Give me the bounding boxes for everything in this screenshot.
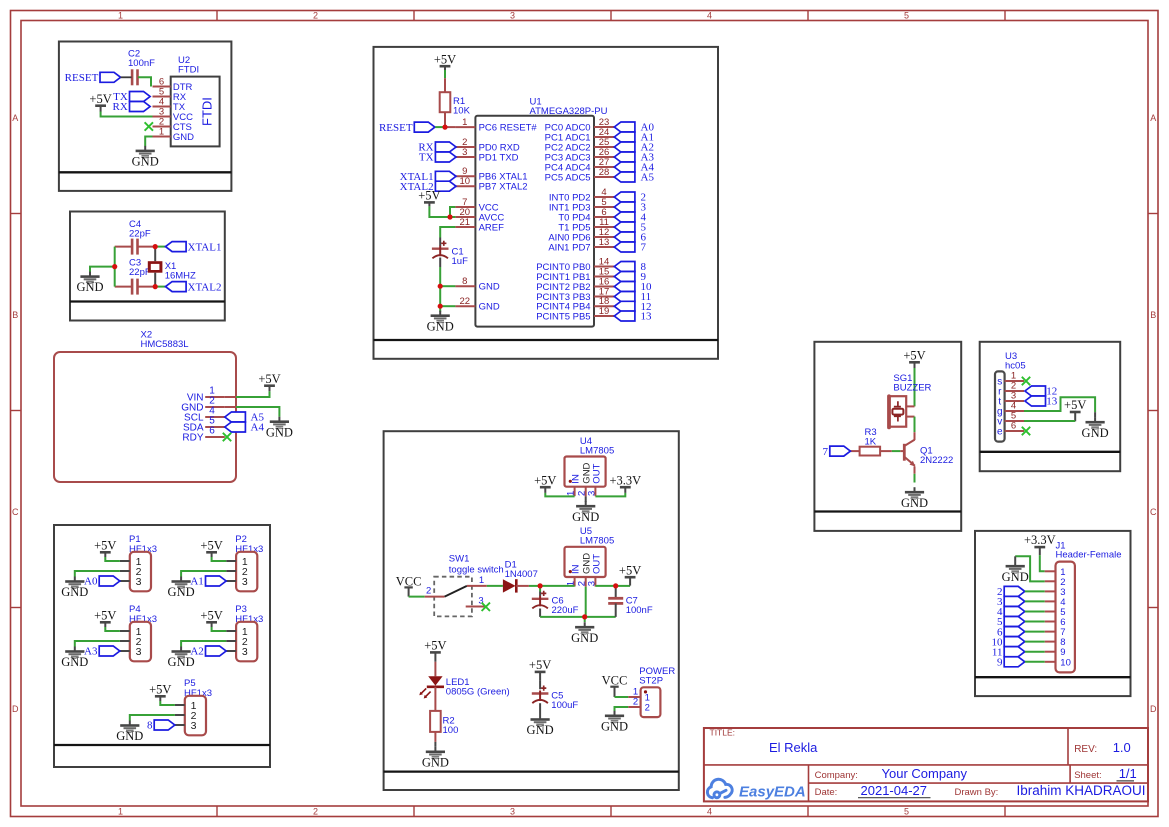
junction crystal left (112, 264, 117, 269)
pin 1 stub (U4) (574, 487, 576, 497)
svg-text:+5V: +5V (94, 538, 116, 552)
svg-text:A2: A2 (190, 646, 203, 658)
frame top tick 1 (216, 11, 218, 21)
wire C3 to XTAL2 junction (138, 286, 156, 288)
svg-text:PCINT5 PB5: PCINT5 PB5 (536, 311, 590, 322)
J1 group box (975, 531, 1131, 696)
wire flag 2 to J1 pin 3 (1025, 590, 1045, 592)
wire junction to +5V (616, 585, 630, 587)
pin 3 of P5 (175, 724, 185, 726)
svg-text:BUZZER: BUZZER (893, 383, 931, 394)
svg-text:e: e (997, 426, 1003, 437)
pin 5 SDA of X2 (205, 426, 225, 428)
net flag 9 on pin 15 (614, 272, 635, 282)
wire C6 to bottom rail (539, 609, 541, 617)
net flag 2 (J1 pin 3) (1004, 586, 1025, 596)
pin 1 of P5 (175, 704, 185, 706)
wire ground to pin2 (P2) (181, 571, 226, 577)
svg-text:ST2P: ST2P (639, 675, 663, 686)
wire C2 to pin 6 (138, 77, 151, 86)
pin 2 CTS of U2 (153, 126, 171, 128)
svg-text:+5V: +5V (534, 473, 556, 487)
wire +5V to U4 pin1 (545, 493, 574, 497)
svg-text:+5V: +5V (418, 189, 440, 203)
pin 2 of P3 (226, 640, 236, 642)
pin 3 VCC of U2 (153, 116, 171, 118)
crystal X1 top stem (154, 247, 156, 262)
chip U2 body (171, 77, 220, 147)
pin 5 v of U3 (1005, 420, 1024, 422)
pin 22 GND of U1 (455, 305, 475, 307)
wire VCC to SW1 pin2 (409, 596, 425, 598)
svg-text:+5V: +5V (424, 639, 446, 653)
EasyEDA logo cloud (707, 779, 732, 797)
net flag A4 (X2) (225, 422, 246, 432)
wire +3.3V to U4 pin3 (595, 493, 625, 497)
svg-text:toggle switch: toggle switch (449, 565, 504, 576)
pin 5 INT1 PD3 of U1 (594, 206, 614, 208)
title block company/date divider (809, 782, 1149, 784)
net flag 4 (J1 pin 5) (1004, 607, 1025, 617)
net flag A4 on pin 27 (614, 162, 635, 172)
ground symbol (P3) (172, 647, 191, 660)
net flag XTAL1 (U1) (435, 171, 456, 181)
title block logo cell divider (808, 765, 810, 802)
wire flag 6 to J1 pin 7 (1025, 631, 1045, 633)
svg-text:1: 1 (479, 575, 484, 586)
svg-text:1.0: 1.0 (1113, 740, 1131, 755)
frame bottom tick 5 (1004, 806, 1006, 817)
net flag A5 on pin 28 (614, 172, 635, 182)
svg-text:GND: GND (132, 155, 159, 169)
svg-text:2N2222: 2N2222 (920, 455, 953, 466)
pin 14 PCINT0 PB0 of U1 (594, 266, 614, 268)
title block row divider (704, 764, 1148, 766)
wire GND pin to box edge (225, 406, 236, 408)
svg-text:A: A (1150, 113, 1156, 123)
net flag 2 on pin 4 (614, 192, 635, 202)
svg-text:D: D (12, 704, 19, 714)
no-connect X on U3 pin 6 (1022, 427, 1030, 435)
svg-text:10: 10 (1060, 657, 1071, 668)
svg-text:Header-Female: Header-Female (1056, 550, 1122, 561)
pin 23 PC0 ADC0 of U1 (594, 126, 614, 128)
svg-text:1uF: 1uF (452, 256, 469, 267)
svg-text:D: D (1150, 704, 1157, 714)
junction GND pin 22 (438, 304, 443, 309)
net flag A0 (P1) (99, 576, 120, 586)
svg-text:PD1 TXD: PD1 TXD (479, 152, 519, 163)
regulator U5 body (565, 547, 606, 577)
wire J1 pin2 to ground (1015, 556, 1044, 581)
svg-text:3: 3 (242, 646, 248, 658)
pin-1 dot (U5) (569, 570, 572, 573)
svg-text:RDY: RDY (182, 432, 203, 443)
wire POWER pin2 to ground (615, 707, 629, 712)
svg-text:A3: A3 (84, 646, 98, 658)
wire junction to U5 pin1 (540, 585, 575, 587)
wire +5V to pin1 (P2) (212, 557, 227, 561)
svg-text:8: 8 (462, 276, 467, 287)
wire crystal left vertical (114, 247, 116, 287)
pin 1 s of U3 (1005, 380, 1024, 382)
junction AVCC (447, 214, 452, 219)
net flag A2 (P3) (206, 646, 227, 656)
capacitor C3 (132, 279, 137, 295)
net flag 13 (U3) (1025, 396, 1046, 406)
ATMEGA group box (374, 47, 719, 359)
capacitor C7 bottom stub (615, 603, 617, 617)
svg-text:0805G (Green): 0805G (Green) (446, 687, 510, 698)
svg-text:100nF: 100nF (626, 605, 653, 616)
frame left tick 2 (11, 410, 22, 412)
net flag 9 (J1 pin 10) (1004, 657, 1025, 667)
wire U5 pin3 to +5V junction (595, 585, 615, 587)
ground symbol (C5) (531, 715, 550, 728)
FTDI group box (59, 42, 232, 191)
ground symbol (J1) (1006, 561, 1025, 574)
pin 9 of J1 (1045, 651, 1056, 653)
wire XTAL1 row left segment (115, 246, 132, 248)
net flag 8 (P5) (154, 720, 175, 730)
pin 10 PB7 XTAL2 of U1 (455, 185, 475, 187)
net flag A2 on pin 25 (614, 142, 635, 152)
svg-text:2021-04-27: 2021-04-27 (861, 783, 928, 798)
pin 7 of J1 (1045, 631, 1056, 633)
svg-text:RESET: RESET (65, 72, 99, 84)
net flag 5 (J1 pin 6) (1004, 617, 1025, 627)
svg-text:2: 2 (313, 807, 318, 817)
connector J1 body (1056, 562, 1075, 673)
Q1 base stub (900, 450, 904, 452)
wire C4 to XTAL1 junction (138, 246, 156, 248)
svg-text:GND: GND (427, 319, 454, 333)
wire VCC to POWER pin1 (615, 696, 629, 698)
ground symbol (U5/C6/C7) (575, 622, 594, 635)
wire flag 11 to J1 pin 9 (1025, 651, 1045, 653)
junction RESET/R1 (442, 125, 447, 130)
wire C5 to ground (539, 703, 541, 714)
wire junction to AVCC pin (450, 216, 455, 218)
svg-text:22pF: 22pF (129, 267, 151, 278)
wire VIN pin to box edge (225, 396, 236, 398)
wire C1 to GND pins green segment (439, 267, 441, 286)
net flag A3 on pin 26 (614, 152, 635, 162)
wire ground stem (U3) (1094, 412, 1096, 417)
svg-text:21: 21 (460, 217, 471, 228)
svg-text:FTDI: FTDI (200, 97, 215, 126)
svg-text:4: 4 (707, 807, 712, 817)
wire junction down to C6 (539, 586, 541, 592)
pin 2 of P2 (226, 570, 236, 572)
svg-text:GND: GND (173, 132, 194, 143)
pin 1 stub (U5) (574, 577, 576, 587)
pin 6 DTR of U2 (153, 86, 171, 88)
capacitor C1 (432, 241, 449, 259)
FTDI group separator (59, 171, 232, 173)
net flag 7 on pin 13 (614, 242, 635, 252)
net flag XTAL2 (U1) (435, 181, 456, 191)
pin 3 of SW1 (466, 606, 486, 608)
pin 2 of SW1 (425, 596, 445, 598)
crystal X1 body (148, 261, 163, 273)
svg-text:LM7805: LM7805 (580, 445, 614, 456)
svg-text:10K: 10K (453, 106, 471, 117)
pin 2 of POWER (628, 706, 640, 708)
pin 6 T0 PD4 of U1 (594, 216, 614, 218)
net flag A1 on pin 24 (614, 132, 635, 142)
svg-text:1: 1 (159, 126, 164, 137)
no-connect X on U3 pin 1 (1022, 377, 1030, 385)
wire junction to pin 22 (440, 305, 455, 307)
title block sheet cell divider (1069, 765, 1071, 783)
net flag 13 on pin 19 (614, 311, 635, 321)
connector POWER body (641, 687, 661, 717)
pin 3 stub (U5) (594, 577, 596, 587)
svg-text:GND: GND (479, 282, 500, 293)
svg-text:1K: 1K (865, 436, 877, 447)
capacitor C6 top stub (539, 592, 541, 597)
pin 8 of J1 (1045, 641, 1056, 643)
wire +5V to AVCC junction (429, 206, 450, 217)
ground symbol (crystal) (80, 272, 99, 285)
pin 2 stub (U4) (585, 487, 587, 497)
svg-text:9: 9 (997, 657, 1003, 669)
svg-text:HF1x3: HF1x3 (235, 544, 263, 555)
svg-text:OUT: OUT (592, 554, 603, 574)
svg-text:TITLE:: TITLE: (710, 728, 736, 738)
net flag XTAL2 (crystal) (166, 282, 187, 292)
frame right tick 2 (1148, 410, 1158, 412)
switch SW1 lever (445, 586, 467, 597)
LED LED1 (419, 676, 444, 698)
svg-text:GND: GND (601, 719, 628, 733)
svg-text:3: 3 (242, 576, 248, 588)
no-connect X on RDY (223, 433, 231, 441)
wire ground to pin2 (P1) (75, 571, 120, 577)
svg-text:5: 5 (904, 807, 909, 817)
frame bottom tick 2 (413, 806, 415, 817)
svg-text:8: 8 (147, 720, 153, 732)
net flag RESET (U2) (100, 72, 121, 82)
junction GND pin 8 (438, 284, 443, 289)
svg-text:GND: GND (266, 425, 293, 439)
ground symbol (P5) (120, 721, 139, 734)
wire junction to pin 1 (445, 126, 455, 128)
net flag XTAL1 (crystal) (166, 242, 187, 252)
net flag 6 on pin 12 (614, 232, 635, 242)
crystal group box (70, 212, 225, 321)
capacitor C5 (532, 686, 549, 704)
net flag 11 (J1 pin 9) (1004, 647, 1025, 657)
headers group separator (54, 744, 270, 746)
wire +5V to pin1 (P4) (105, 627, 120, 631)
svg-text:XTAL1: XTAL1 (188, 241, 222, 253)
pin 6 of J1 (1045, 621, 1056, 623)
svg-text:PB7 XTAL2: PB7 XTAL2 (479, 182, 528, 193)
svg-text:GND: GND (422, 755, 449, 769)
svg-text:+5V: +5V (258, 372, 280, 386)
LED1 anode lead (434, 662, 436, 677)
ground symbol (U1) (431, 311, 450, 323)
pin 25 PC2 ADC2 of U1 (594, 146, 614, 148)
svg-text:C: C (1150, 507, 1157, 517)
pin 2 r of U3 (1005, 390, 1024, 392)
svg-text:GND: GND (116, 729, 143, 743)
svg-text:7: 7 (641, 242, 647, 254)
net flag 8 on pin 14 (614, 262, 635, 272)
svg-text:2: 2 (426, 586, 431, 597)
pin 20 AVCC of U1 (455, 216, 475, 218)
pin 15 PCINT1 PB1 of U1 (594, 276, 614, 278)
pin 2 of P1 (120, 570, 130, 572)
pin 28 PC5 ADC5 of U1 (594, 176, 614, 178)
svg-text:1: 1 (462, 117, 467, 128)
svg-text:+5V: +5V (89, 92, 111, 106)
svg-text:22: 22 (460, 296, 471, 307)
capacitor C7 top stub (615, 586, 617, 598)
svg-text:A1: A1 (190, 576, 203, 588)
svg-text:+5V: +5V (149, 682, 171, 696)
ground symbol (P4) (65, 647, 84, 660)
net flag TX (U1) (435, 152, 456, 162)
svg-text:100uF: 100uF (551, 700, 578, 711)
module U3 body (995, 371, 1005, 441)
wire ground stem (J1) (1014, 556, 1016, 561)
svg-text:EasyEDA: EasyEDA (739, 784, 806, 801)
svg-text:SW1: SW1 (449, 553, 470, 564)
crystal group separator (70, 300, 225, 302)
svg-text:16MHZ: 16MHZ (165, 270, 196, 281)
net flag RESET (U1) (414, 122, 435, 132)
net flag 10 (J1 pin 8) (1004, 637, 1025, 647)
svg-text:13: 13 (1046, 396, 1058, 408)
svg-text:+5V: +5V (200, 608, 222, 622)
pin 1 of J1 (1045, 570, 1056, 572)
power group separator (384, 770, 679, 772)
pin 19 PCINT5 PB5 of U1 (594, 315, 614, 317)
junction C7/+5V (613, 583, 618, 588)
svg-text:GND: GND (479, 302, 500, 313)
pin 5 RX of U2 (153, 96, 171, 98)
pin 3 PD1 TXD of U1 (455, 156, 475, 158)
svg-text:GND: GND (572, 510, 599, 524)
svg-text:+5V: +5V (529, 658, 551, 672)
junction XTAL2 (153, 284, 158, 289)
net flag A0 on pin 23 (614, 122, 635, 132)
svg-text:+3.3V: +3.3V (1024, 533, 1056, 547)
svg-text:+5V: +5V (619, 563, 641, 577)
svg-text:GND: GND (76, 280, 103, 294)
buzzer group separator (814, 510, 961, 512)
svg-text:TX: TX (419, 152, 434, 164)
crystal X1 bottom stem (154, 273, 156, 287)
pin-1 dot (POWER) (644, 690, 647, 693)
pin 2 GND of X2 (205, 406, 225, 408)
wire GND pin to ground (U2) (145, 137, 152, 147)
frame top tick 3 (610, 11, 612, 21)
svg-text:22pF: 22pF (129, 229, 151, 240)
svg-text:A: A (12, 113, 18, 123)
wire +5V to pin1 (P5) (160, 701, 175, 705)
svg-text:+3.3V: +3.3V (609, 473, 641, 487)
capacitor C2 (132, 69, 137, 85)
svg-text:HF1x3: HF1x3 (129, 544, 157, 555)
pin 3 of P3 (226, 650, 236, 652)
net flag 3 on pin 5 (614, 202, 635, 212)
svg-text:220uF: 220uF (552, 605, 579, 616)
pin 11 T1 PD5 of U1 (594, 226, 614, 228)
switch SW1 dashed outline (434, 577, 472, 617)
wire to crystal ground (90, 267, 115, 273)
pin 3 of J1 (1045, 590, 1056, 592)
svg-text:GND: GND (1002, 570, 1029, 584)
wire buzzer to Q1 collector (914, 417, 916, 433)
pin 13 AIN1 PD7 of U1 (594, 246, 614, 248)
net flag 4 on pin 6 (614, 212, 635, 222)
svg-text:2: 2 (645, 703, 650, 714)
ground symbol (P2) (172, 577, 191, 590)
svg-text:3: 3 (510, 11, 515, 21)
svg-text:+5V: +5V (434, 52, 456, 66)
wire flag 3 to J1 pin 4 (1025, 600, 1045, 602)
resistor R2 (430, 711, 441, 742)
pin 9 PB6 XTAL1 of U1 (455, 175, 475, 177)
svg-text:OUT: OUT (592, 463, 603, 483)
wire junction to pin 8 (440, 285, 455, 287)
svg-text:RESET: RESET (379, 122, 413, 134)
pin 17 PCINT3 PB3 of U1 (594, 296, 614, 298)
junction D1/C6 (538, 583, 543, 588)
svg-text:GND: GND (527, 723, 554, 737)
svg-text:IN: IN (571, 474, 582, 484)
title block outline (704, 728, 1148, 801)
net flag 11 on pin 17 (614, 292, 635, 302)
buzzer pin 1 stub (906, 405, 914, 407)
pin 1 of POWER (628, 696, 640, 698)
wire +5V to pin1 (P3) (212, 627, 227, 631)
pin 1 PC6 RESET# of U1 (455, 126, 475, 128)
svg-text:6: 6 (1011, 421, 1016, 432)
pin 3 of P2 (226, 580, 236, 582)
pin 8 GND of U1 (455, 285, 475, 287)
svg-text:3: 3 (462, 147, 467, 158)
pin 1 of P1 (120, 560, 130, 562)
pin 1 GND of U2 (153, 136, 171, 138)
wire R3 to Q1 base (892, 450, 901, 452)
junction bottom rail GND (582, 614, 587, 619)
svg-text:HF1x3: HF1x3 (235, 614, 263, 625)
wire junction to XTAL2 flag (155, 286, 165, 288)
frame bottom tick 3 (610, 806, 612, 817)
wire junction to XTAL1 flag (155, 246, 165, 248)
wire +5V to VCC pin (U2) (101, 112, 153, 117)
svg-text:Sheet:: Sheet: (1074, 770, 1101, 781)
wire U5 pin2 to rail (585, 587, 587, 617)
svg-text:Drawn By:: Drawn By: (955, 787, 999, 798)
pin 3 of P4 (120, 650, 130, 652)
svg-text:1/1: 1/1 (1119, 766, 1137, 781)
svg-text:1N4007: 1N4007 (505, 569, 538, 580)
svg-text:REV:: REV: (1074, 744, 1097, 755)
no-connect X on CTS (145, 122, 153, 130)
svg-text:100nF: 100nF (128, 58, 155, 69)
svg-text:IN: IN (571, 564, 582, 574)
net flag 12 (U3) (1025, 386, 1046, 396)
connector P3 body (236, 622, 257, 662)
pin 4 g of U3 (1005, 410, 1024, 412)
buzzer SG1 symbol (887, 394, 906, 429)
